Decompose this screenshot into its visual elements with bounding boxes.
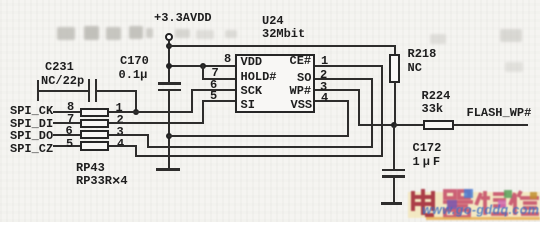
U24 pin 8 [224,53,231,65]
U24 reference label [262,15,284,27]
wire VSS to ground [168,135,348,137]
watermark logo [404,186,540,222]
wire SPI_CK lead [53,111,80,113]
wire C231 left lead [37,90,88,92]
net SPI_DO label [10,130,53,142]
wire C231 drop vertical [135,90,137,113]
wire row4 to CE# [109,145,137,147]
R218 label [408,48,437,60]
wire C231 right lead [97,90,137,92]
U24 pin name SCK [241,85,263,97]
resistor R224 [394,124,423,126]
wire C170 lower vertical to ground [168,91,170,169]
RP43 pin 7 [67,113,74,125]
C172 label [413,142,442,154]
ghost bleed-through marks top [57,27,75,40]
U24 pin name CE# [290,55,312,67]
op chip U24 box [235,54,316,113]
U24 pin 2 [320,69,327,81]
RP43 pin 5 [66,138,73,150]
resistor R218 [394,45,396,55]
U24 pin 1 [321,55,328,67]
node VDD/C170 junction [166,63,172,69]
U24 pin 4 [321,92,328,104]
capacitor C172 [393,126,395,169]
RP43 reference label [76,162,105,174]
net SPI_DI label [10,118,53,130]
net +3.3AVDD label [154,12,212,24]
resistor pack RP43 bodies [80,108,109,118]
wire AVDD vertical [168,40,170,83]
wire WP# to junction [315,89,359,91]
capacitor C231 open terminal tick [37,80,39,101]
U24 pin name WP# [290,85,312,97]
U24 pin 7 [212,67,219,79]
node VSS/ground junction [166,133,172,139]
net SPI_CZ label [10,143,53,155]
wire row1 to SCK [109,111,193,113]
ground bar right [381,202,402,205]
wire row3 to SO [109,134,149,136]
wire SPI_DO lead [53,134,80,136]
U24 pin 3 [320,81,327,93]
wire row2 to SI [109,122,204,124]
U24 pin 5 [210,90,217,102]
U24 pin name SO [297,72,311,84]
wire VDD line y66 [168,65,235,67]
net SPI_CK label [10,105,53,117]
capacitor C231 plates [88,79,90,102]
U24 pin name SI [241,99,255,111]
U24 pin name HOLD# [241,71,277,83]
capacitor C170 plates [158,82,181,85]
R224 label [422,90,451,102]
RP43 pin 3 [117,126,124,138]
wire HOLD# vertical tie [202,65,204,80]
node HOLD# tie junction [200,63,206,69]
RP43 pin 1 [116,102,123,114]
capacitor C231 label [45,61,74,73]
wire HOLD# horizontal y78.5 [202,78,235,80]
capacitor C170 label [120,55,149,67]
RP43 pin 4 [117,138,124,150]
U24 pin name VDD [241,56,263,68]
RP43 pin 8 [67,101,74,113]
wire power rail horizontal to R218 [168,45,395,47]
wire SPI_DI lead [53,122,80,124]
node C231/row1 junction [133,109,139,115]
junction dot power rail [166,43,172,49]
U24 pin name VSS [291,99,313,111]
wire SPI_CZ lead [53,145,80,147]
net FLASH_WP# label [467,107,532,119]
power terminal circle [165,33,173,41]
node WP#/R218/R224/C172 junction [391,122,397,128]
U24 pin 6 [210,79,217,91]
RP43 pin 6 [66,125,73,137]
ground bar left [156,168,180,171]
RP43 pin 2 [117,114,124,126]
